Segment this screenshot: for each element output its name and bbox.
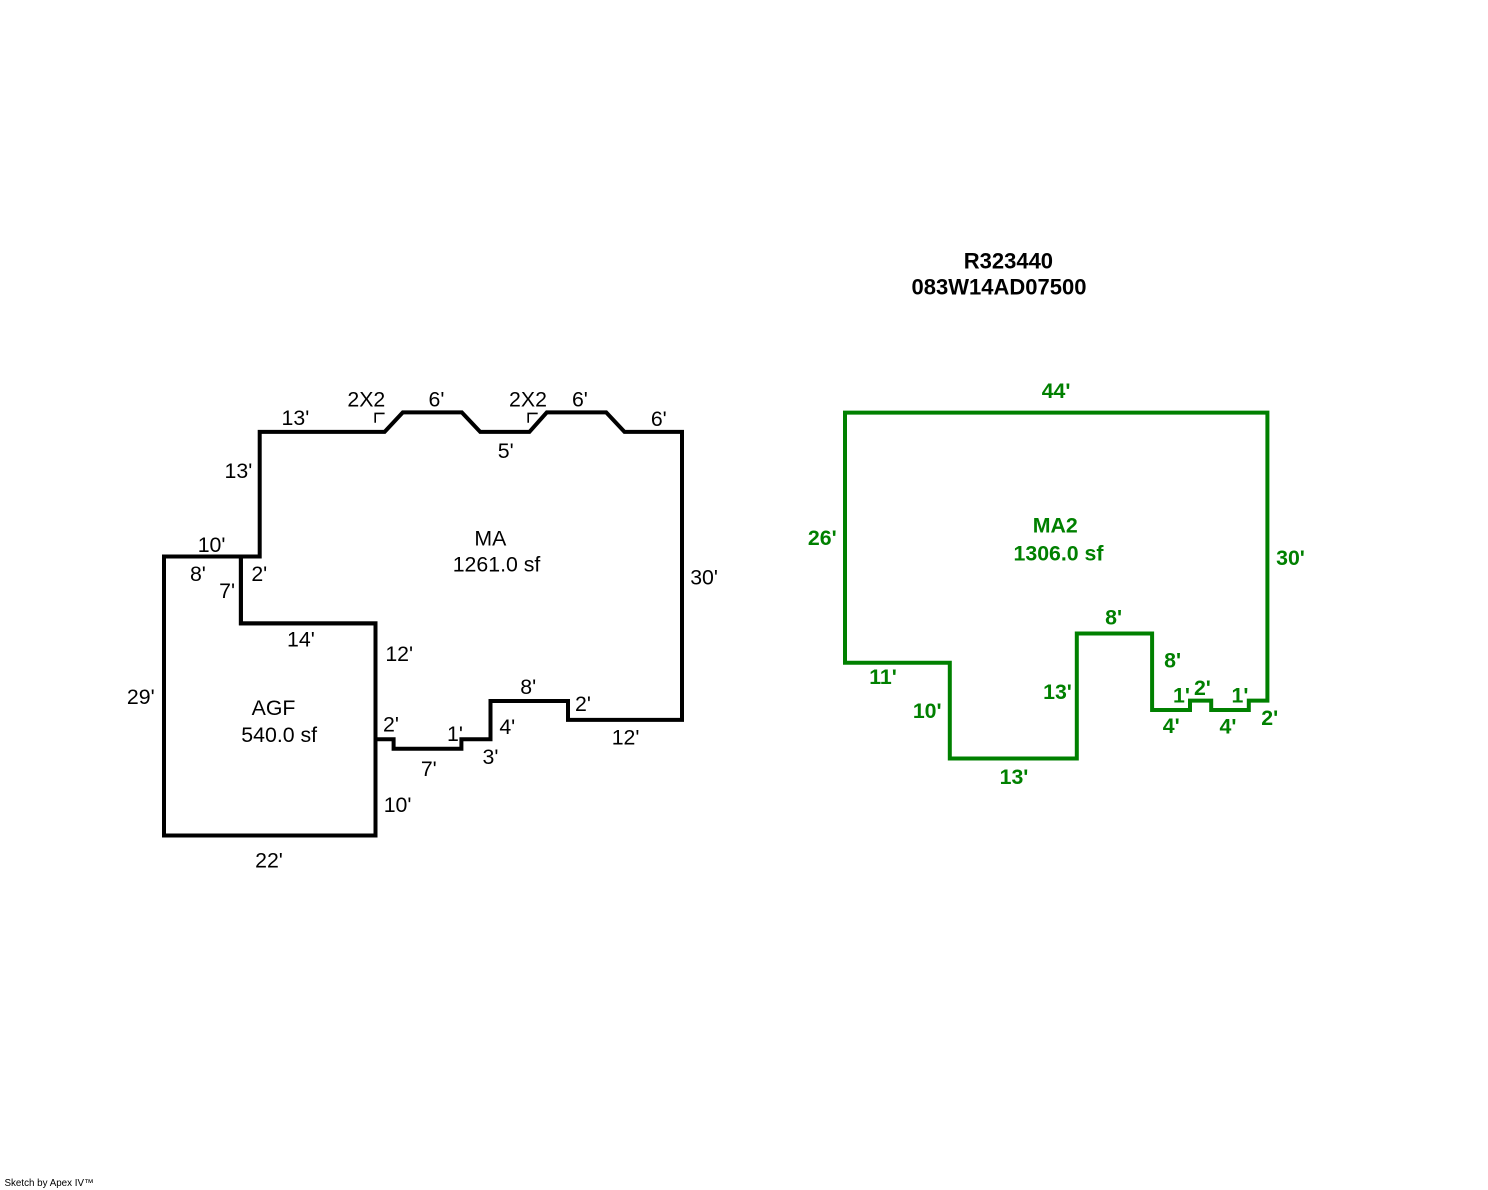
svg-text:7': 7' bbox=[421, 757, 437, 781]
svg-text:30': 30' bbox=[1276, 546, 1305, 570]
svg-text:2X2: 2X2 bbox=[509, 388, 547, 412]
svg-text:10': 10' bbox=[384, 793, 412, 817]
svg-text:13': 13' bbox=[1000, 765, 1029, 789]
svg-text:2': 2' bbox=[1194, 676, 1211, 700]
svg-text:Sketch by Apex IV™: Sketch by Apex IV™ bbox=[5, 1178, 94, 1189]
svg-text:083W14AD07500: 083W14AD07500 bbox=[912, 275, 1087, 300]
svg-text:2': 2' bbox=[251, 562, 267, 586]
svg-text:1261.0 sf: 1261.0 sf bbox=[453, 553, 541, 577]
svg-text:30': 30' bbox=[690, 565, 718, 589]
svg-text:2X2: 2X2 bbox=[347, 388, 385, 412]
svg-text:8': 8' bbox=[520, 675, 536, 699]
svg-text:1': 1' bbox=[1173, 684, 1190, 708]
svg-text:540.0 sf: 540.0 sf bbox=[241, 723, 317, 747]
svg-text:1306.0 sf: 1306.0 sf bbox=[1014, 541, 1105, 565]
svg-text:10': 10' bbox=[198, 533, 226, 557]
svg-text:AGF: AGF bbox=[252, 696, 296, 720]
svg-text:8': 8' bbox=[1164, 649, 1181, 673]
svg-text:3': 3' bbox=[483, 745, 499, 769]
svg-text:13': 13' bbox=[282, 406, 310, 430]
svg-text:6': 6' bbox=[429, 388, 445, 412]
svg-text:1': 1' bbox=[1232, 684, 1249, 708]
svg-text:MA2: MA2 bbox=[1033, 514, 1078, 538]
svg-text:7': 7' bbox=[219, 579, 235, 603]
svg-text:29': 29' bbox=[127, 685, 155, 709]
svg-text:4': 4' bbox=[1220, 715, 1237, 739]
svg-text:1': 1' bbox=[447, 722, 463, 746]
svg-text:11': 11' bbox=[869, 665, 897, 689]
svg-text:13': 13' bbox=[225, 459, 253, 483]
svg-text:8': 8' bbox=[190, 562, 206, 586]
svg-text:8': 8' bbox=[1105, 605, 1122, 629]
svg-text:13': 13' bbox=[1043, 680, 1072, 704]
svg-text:2': 2' bbox=[383, 713, 399, 737]
svg-text:4': 4' bbox=[1163, 714, 1180, 738]
svg-text:12': 12' bbox=[612, 725, 640, 749]
svg-text:R323440: R323440 bbox=[964, 248, 1053, 273]
svg-text:6': 6' bbox=[651, 407, 667, 431]
svg-text:26': 26' bbox=[808, 526, 837, 550]
svg-text:44': 44' bbox=[1042, 379, 1071, 403]
svg-text:4': 4' bbox=[499, 715, 515, 739]
svg-text:5': 5' bbox=[498, 439, 514, 463]
svg-text:22': 22' bbox=[255, 849, 283, 873]
svg-text:2': 2' bbox=[575, 692, 591, 716]
svg-text:10': 10' bbox=[913, 699, 942, 723]
svg-text:6': 6' bbox=[572, 388, 588, 412]
svg-text:MA: MA bbox=[474, 526, 507, 550]
svg-text:14': 14' bbox=[287, 628, 315, 652]
svg-text:12': 12' bbox=[385, 642, 413, 666]
svg-text:2': 2' bbox=[1261, 706, 1278, 730]
